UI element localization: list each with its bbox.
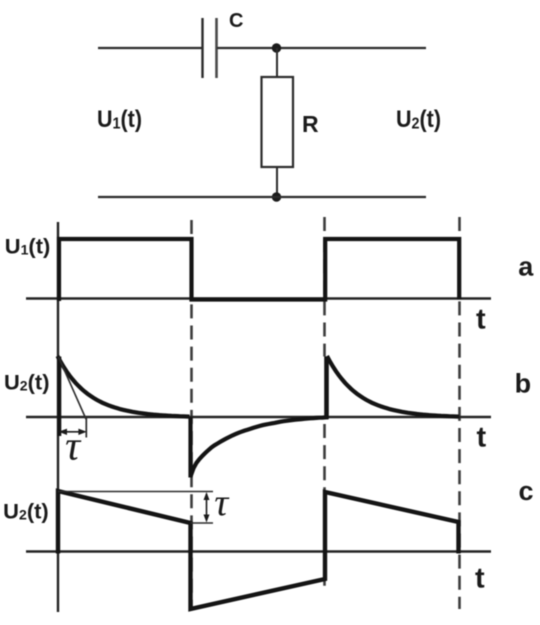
tau tick graph b: [85, 417, 87, 438]
tau arrow graph b: [59, 429, 87, 435]
label tau graph c: [215, 497, 229, 515]
recovery curve graph b: [191, 417, 329, 476]
wire node to resistor: [276, 48, 278, 78]
dashed gridline x=324 lower part: [323, 424, 326, 592]
svg-text:b: b: [515, 368, 532, 398]
reference tick bottom graph c: [191, 522, 214, 524]
vertical axis (all graphs): [57, 222, 59, 612]
node bottom junction: [272, 192, 281, 201]
negative spike graph b: [188, 417, 192, 478]
dashed gridline x=324: [323, 217, 326, 357]
axis t graph c: [26, 550, 491, 552]
capacitor C: [203, 18, 217, 78]
spike 2 graph b: [324, 357, 329, 420]
wire top-left: [98, 47, 202, 49]
spike 1 graph b: [57, 357, 61, 437]
svg-text:R: R: [302, 111, 319, 137]
svg-text:U1(t): U1(t): [5, 236, 51, 259]
svg-text:t: t: [476, 304, 486, 336]
wire bottom rail: [98, 196, 426, 198]
wire top-right: [217, 47, 426, 49]
sawtooth wave graph c: [58, 491, 459, 609]
axis t graph a: [26, 297, 491, 299]
resistor R: [262, 77, 294, 167]
dashed gridline x=191: [190, 220, 193, 609]
svg-text:a: a: [518, 252, 534, 282]
decay curve 1 graph b: [58, 356, 190, 417]
dashed gridline x=459: [458, 217, 461, 609]
svg-text:C: C: [229, 10, 243, 32]
axis t graph b: [26, 416, 491, 418]
svg-text:t: t: [477, 421, 487, 453]
wire resistor to bottom rail: [276, 167, 278, 197]
node top junction: [272, 43, 281, 52]
svg-text:t: t: [475, 562, 485, 594]
svg-text:U2(t): U2(t): [4, 372, 50, 395]
label tau graph b: [66, 440, 81, 460]
decay curve 2 graph b: [327, 356, 459, 417]
tangent line tau graph b: [59, 357, 87, 419]
svg-text:c: c: [519, 476, 534, 506]
tau arrow graph c: [204, 492, 210, 523]
square wave U1: [59, 239, 459, 301]
svg-text:U2(t): U2(t): [3, 501, 49, 524]
reference line top graph c: [58, 491, 213, 493]
